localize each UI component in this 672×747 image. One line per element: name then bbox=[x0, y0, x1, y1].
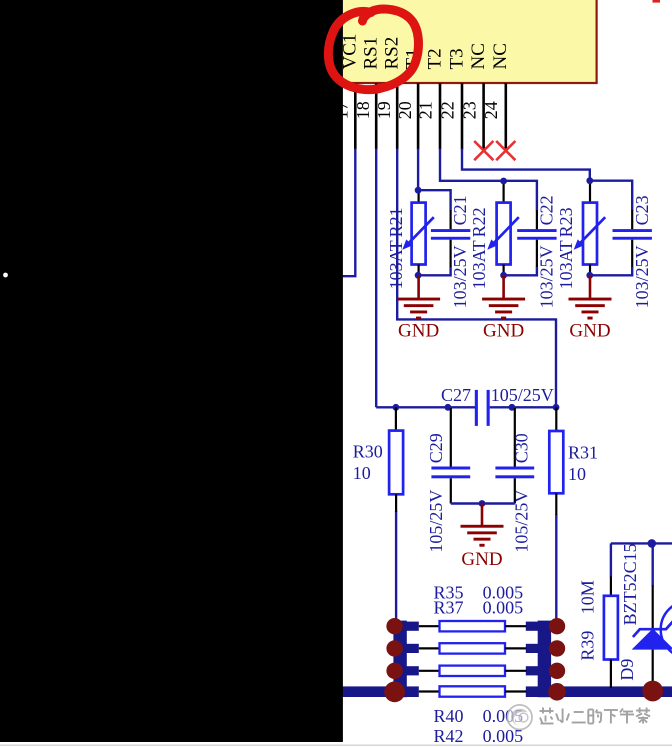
svg-text:R37: R37 bbox=[434, 598, 464, 618]
label C21 value 103/25V bbox=[450, 245, 470, 308]
svg-text:R22: R22 bbox=[469, 207, 489, 237]
pin 18 wire stub bbox=[354, 83, 357, 149]
red mark (top right, cut off) bbox=[653, 0, 661, 3]
pin number 18 bbox=[353, 101, 373, 119]
pin number 22 bbox=[438, 101, 458, 119]
annotation circle (blue, cut off) bbox=[661, 601, 672, 659]
svg-text:GND: GND bbox=[398, 321, 439, 342]
svg-text:18: 18 bbox=[353, 101, 373, 119]
svg-text:NC: NC bbox=[490, 43, 511, 69]
svg-text:R40: R40 bbox=[434, 706, 464, 726]
power bus (bottom, left segment) bbox=[330, 686, 419, 697]
wire filter rail left of C27 bbox=[376, 406, 476, 408]
shunt resistor R35 0.005 bbox=[419, 621, 527, 631]
watermark logo bbox=[507, 705, 532, 730]
svg-text:GND: GND bbox=[461, 549, 502, 570]
label R42 0.005 bbox=[434, 726, 524, 746]
svg-text:T2: T2 bbox=[424, 48, 445, 69]
svg-text:NC: NC bbox=[468, 43, 489, 69]
pin 21 wire stub bbox=[417, 83, 420, 149]
label R35 0.005 bbox=[434, 582, 524, 602]
pin name VC1 bbox=[340, 34, 361, 70]
bottom page edge line bbox=[0, 744, 672, 746]
svg-text:D9: D9 bbox=[617, 659, 637, 681]
thermistor R21 103AT bbox=[402, 190, 434, 276]
svg-text:R42: R42 bbox=[434, 726, 464, 746]
resistor R30 10 bbox=[353, 407, 403, 512]
pin number 17 bbox=[332, 101, 352, 119]
label R22 value 103AT bbox=[469, 240, 489, 289]
label R40 0.005 bbox=[434, 706, 524, 726]
thermistor R23 103AT bbox=[574, 181, 606, 276]
junction node bbox=[586, 272, 593, 279]
power bus (bottom, right segment) bbox=[526, 686, 672, 697]
svg-text:103/25V: 103/25V bbox=[450, 245, 470, 308]
label R23 designator bbox=[556, 207, 576, 237]
capacitor C23 103/25V bbox=[613, 210, 652, 267]
wire T1 (pin21) to R21 network bbox=[417, 149, 419, 191]
svg-text:C27: C27 bbox=[441, 385, 471, 405]
wire D9 upper bbox=[652, 543, 654, 585]
wire VC1 (pin18) down-left bbox=[339, 149, 355, 277]
black mask column (left) bbox=[0, 0, 343, 742]
svg-text:R39: R39 bbox=[578, 631, 598, 661]
pin name NC bbox=[490, 43, 511, 69]
label R21 designator bbox=[386, 207, 406, 237]
pin number 20 bbox=[395, 101, 415, 119]
svg-text:10: 10 bbox=[568, 464, 586, 484]
junction node bbox=[500, 272, 507, 279]
svg-text:10: 10 bbox=[353, 463, 371, 483]
svg-text:R31: R31 bbox=[568, 442, 598, 462]
pin name T3 bbox=[446, 48, 467, 69]
pin 19 wire stub bbox=[375, 83, 378, 149]
thermistor R22 103AT bbox=[487, 181, 519, 276]
ground GND bbox=[482, 276, 525, 342]
svg-text:R30: R30 bbox=[353, 441, 383, 461]
via pad right (bus corner) bbox=[548, 683, 566, 701]
wire R39 upper bbox=[610, 543, 612, 576]
junction node bbox=[479, 500, 486, 507]
capacitor C27 105/25V (series) bbox=[441, 385, 554, 426]
svg-text:105/25V: 105/25V bbox=[512, 490, 532, 553]
via pad left bbox=[386, 640, 402, 656]
svg-text:T3: T3 bbox=[446, 48, 467, 69]
svg-text:21: 21 bbox=[416, 101, 436, 119]
pin number 24 bbox=[481, 101, 501, 119]
svg-text:105/25V: 105/25V bbox=[426, 490, 446, 553]
svg-text:23: 23 bbox=[460, 101, 480, 119]
junction node bbox=[509, 404, 516, 411]
wire net1 top rail bbox=[418, 190, 451, 210]
label C22 designator bbox=[537, 195, 557, 225]
wire RS1 (pin19) down to filter rail bbox=[375, 149, 377, 408]
junction node bbox=[648, 539, 657, 548]
wire RS2 (pin20) down-right-down to filter rail bbox=[397, 149, 556, 408]
junction node bbox=[445, 404, 452, 411]
junction node bbox=[415, 272, 422, 279]
zener diode D9 BZT52C15 bbox=[617, 543, 672, 688]
wire T3 (pin23) to R23/C23 network bbox=[462, 149, 590, 181]
svg-text:22: 22 bbox=[438, 101, 458, 119]
via pad left (bus corner, large) bbox=[384, 681, 405, 702]
pin 22 wire stub bbox=[439, 83, 442, 149]
svg-text:C30: C30 bbox=[512, 433, 532, 463]
via pad right bbox=[549, 663, 565, 679]
pin 24 wire stub bbox=[482, 83, 485, 149]
svg-text:0.005: 0.005 bbox=[483, 598, 523, 618]
annotation circle (red, hand-drawn) bbox=[328, 9, 418, 90]
label R22 designator bbox=[469, 207, 489, 237]
svg-text:C22: C22 bbox=[537, 195, 557, 225]
svg-text:103/25V: 103/25V bbox=[537, 245, 557, 308]
sheet symbol (IC body, yellow) bbox=[325, 0, 597, 83]
label R23 value 103AT bbox=[556, 240, 576, 289]
svg-text:C21: C21 bbox=[450, 195, 470, 225]
label C23 value 103/25V bbox=[632, 245, 652, 308]
junction node bbox=[415, 187, 422, 194]
svg-text:GND: GND bbox=[569, 321, 610, 342]
pin number 19 bbox=[374, 101, 394, 119]
wire C29/C30 bottom rail bbox=[451, 502, 515, 504]
wire net2 bottom rail bbox=[504, 267, 537, 276]
svg-text:RS1: RS1 bbox=[361, 37, 382, 70]
label R37 0.005 bbox=[434, 598, 524, 618]
svg-text:C29: C29 bbox=[426, 433, 446, 463]
junction node bbox=[553, 404, 560, 411]
wire T2 (pin22) to R22/C22 network bbox=[440, 149, 537, 211]
junction node bbox=[500, 178, 507, 185]
svg-text:103AT: 103AT bbox=[386, 240, 406, 289]
svg-text:GND: GND bbox=[483, 321, 524, 342]
junction node bbox=[586, 177, 593, 184]
pin name NC bbox=[468, 43, 489, 69]
svg-text:C23: C23 bbox=[632, 195, 652, 225]
svg-text:BZT52C15: BZT52C15 bbox=[620, 543, 640, 625]
shunt resistor R42 0.005 bbox=[419, 686, 527, 696]
ground GND (C29/C30) bbox=[461, 504, 504, 570]
via pad right bbox=[549, 618, 565, 634]
no-connect X mark bbox=[496, 141, 515, 160]
pin name RS1 bbox=[361, 37, 382, 70]
wire filter rail right of C27 bbox=[490, 406, 556, 408]
svg-text:19: 19 bbox=[374, 101, 394, 119]
svg-text:103/25V: 103/25V bbox=[632, 245, 652, 308]
wire net1 bottom rail bbox=[418, 267, 451, 276]
capacitor C30 105/25V bbox=[495, 408, 534, 553]
wire net3 bottom rail bbox=[590, 267, 632, 276]
right shunt bus bar bbox=[526, 621, 564, 698]
pin number 21 bbox=[416, 101, 436, 119]
pin name T2 bbox=[424, 48, 445, 69]
wire R39/D9 top link bbox=[611, 542, 672, 544]
left shunt bus bar bbox=[393, 621, 418, 698]
wire R30 top connection bbox=[395, 407, 397, 409]
capacitor C21 103/25V bbox=[431, 210, 470, 267]
resistor R31 10 bbox=[549, 407, 598, 515]
svg-text:105/25V: 105/25V bbox=[491, 385, 554, 405]
no-connect X mark bbox=[474, 141, 493, 160]
junction node bbox=[393, 404, 400, 411]
wire R31 to right bus bbox=[555, 514, 557, 627]
ground GND bbox=[569, 276, 612, 342]
svg-text:10M: 10M bbox=[578, 580, 598, 614]
label R21 value 103AT bbox=[386, 240, 406, 289]
svg-text:RS2: RS2 bbox=[382, 37, 403, 70]
pin 23 wire stub bbox=[461, 83, 464, 149]
via pad left bbox=[386, 663, 402, 679]
pin 20 wire stub bbox=[396, 83, 399, 149]
pin name T1 bbox=[402, 48, 423, 69]
wire R30 to left bus bbox=[395, 511, 397, 627]
pin number 23 bbox=[460, 101, 480, 119]
capacitor C29 105/25V bbox=[426, 408, 470, 553]
ground GND bbox=[397, 276, 440, 342]
pin 17 wire stub bbox=[333, 83, 336, 149]
pin name RS2 bbox=[382, 37, 403, 70]
capacitor C22 103/25V bbox=[517, 210, 556, 267]
label C21 designator bbox=[450, 195, 470, 225]
wire net3 top rail bbox=[590, 181, 632, 211]
svg-text:24: 24 bbox=[481, 101, 501, 119]
resistor R39 10M bbox=[578, 576, 618, 688]
shunt resistor R37 0.005 bbox=[419, 643, 527, 653]
svg-text:R21: R21 bbox=[386, 207, 406, 237]
shunt resistor R40 0.005 bbox=[419, 666, 527, 676]
watermark text (CJK strokes) bbox=[540, 708, 651, 724]
svg-text:103AT: 103AT bbox=[469, 240, 489, 289]
label C22 value 103/25V bbox=[537, 245, 557, 308]
via pad right bbox=[549, 640, 565, 656]
svg-text:103AT: 103AT bbox=[556, 240, 576, 289]
pin 25 wire stub bbox=[504, 83, 507, 149]
via pad left bbox=[386, 618, 402, 634]
svg-text:R23: R23 bbox=[556, 207, 576, 237]
label C23 designator bbox=[632, 195, 652, 225]
via pad D9/bus (large) bbox=[642, 681, 663, 702]
svg-text:20: 20 bbox=[395, 101, 415, 119]
